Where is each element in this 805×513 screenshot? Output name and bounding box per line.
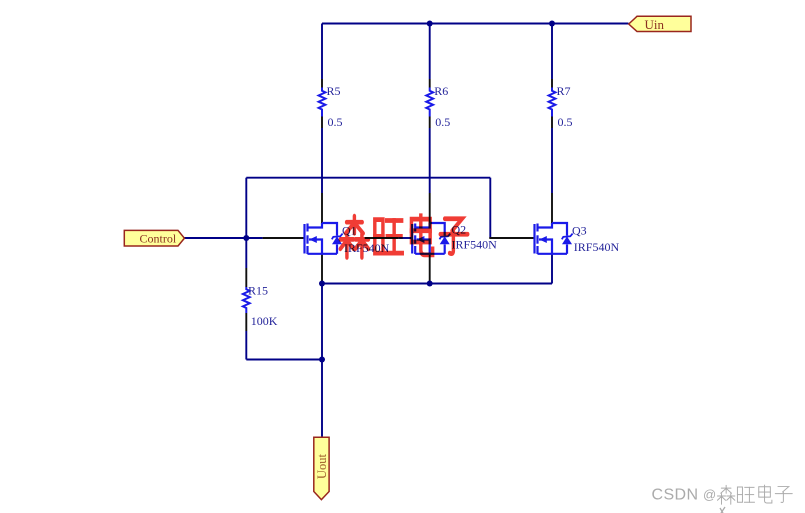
junction source rail Q1: [319, 281, 325, 287]
resistor R5 body: [319, 88, 326, 117]
junction output drop: [319, 357, 325, 363]
wire bottom horizontal R15: [246, 359, 322, 361]
pin R6 bottom: [429, 117, 431, 129]
wire output drop: [321, 284, 323, 360]
svg-text:IRF540N: IRF540N: [452, 238, 498, 252]
svg-text:Uout: Uout: [315, 453, 329, 479]
transistor Q1 IRF540N: [305, 223, 343, 254]
wire gate loop right vertical: [489, 178, 491, 238]
junction gate/R15: [243, 235, 249, 241]
cut-off glyph bottom: [720, 507, 725, 513]
svg-text:0.5: 0.5: [328, 115, 343, 129]
svg-text:Control: Control: [140, 232, 177, 246]
pin R7 bottom: [551, 117, 553, 129]
wire drain column 1 upper: [321, 24, 323, 80]
wire gate loop top rail: [246, 177, 490, 179]
resistor R6 body: [426, 88, 433, 117]
pin Q3 gate: [489, 237, 534, 239]
wire top rail Uin: [322, 23, 629, 25]
junction source rail Q2: [427, 281, 433, 287]
svg-text:R6: R6: [434, 84, 448, 98]
wire source rail: [322, 283, 552, 285]
pin Q1 drain: [321, 193, 323, 223]
svg-text:@: @: [703, 487, 716, 502]
pin Q1 gate: [263, 237, 304, 239]
svg-text:Uin: Uin: [645, 17, 665, 32]
pin Q2 source: [429, 254, 431, 284]
svg-text:R15: R15: [248, 284, 268, 298]
svg-text:CSDN: CSDN: [652, 487, 699, 504]
svg-text:0.5: 0.5: [435, 115, 450, 129]
transistor Q3 IRF540N: [535, 223, 573, 254]
svg-text:100K: 100K: [251, 314, 278, 328]
wire to Uout flag: [321, 360, 323, 438]
pin Q2 gate wire: [365, 237, 399, 239]
svg-text:R5: R5: [327, 84, 341, 98]
wire Q2 gate blue stub: [398, 237, 412, 239]
pin R5 top: [321, 79, 323, 88]
transistor Q2 IRF540N: [412, 223, 450, 254]
pin R15 bottom: [245, 313, 247, 331]
wire drain column 2 upper: [429, 24, 431, 80]
junction top rail R7: [549, 21, 555, 27]
wire drain column 3 upper: [551, 24, 553, 80]
resistor R15 body: [243, 287, 250, 313]
port Uin: [629, 16, 691, 32]
wire gate loop left vertical: [245, 178, 247, 238]
wire control to gate: [184, 237, 262, 239]
svg-text:0.5: 0.5: [558, 115, 573, 129]
pin Q3 drain: [551, 193, 553, 223]
pin Q1 source: [321, 254, 323, 284]
wire R15 lower: [245, 331, 247, 360]
wire drain column 3 mid: [551, 128, 553, 193]
port Uout: [314, 437, 329, 499]
wire drain column 2 mid: [429, 128, 431, 193]
wire drain column 1 mid: [321, 128, 323, 193]
pin R6 top: [429, 79, 431, 88]
pin Q2 drain: [429, 193, 431, 223]
resistor R7 body: [549, 88, 556, 117]
junction top rail R6: [427, 21, 433, 27]
wire Q3 source to rail: [551, 254, 553, 284]
wire R15 upper: [245, 238, 247, 268]
pin R5 bottom: [321, 117, 323, 129]
pin R7 top: [551, 79, 553, 88]
port Control: [124, 230, 184, 246]
svg-text:Q3: Q3: [572, 224, 587, 238]
svg-text:R7: R7: [557, 84, 571, 98]
svg-text:IRF540N: IRF540N: [574, 240, 620, 254]
pin R15 top: [245, 268, 247, 287]
